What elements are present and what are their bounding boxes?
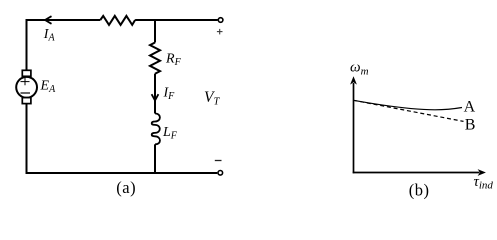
wire left rail bottom — [26, 104, 28, 174]
wire field branch top — [154, 19, 156, 43]
svg-text:B: B — [465, 116, 476, 133]
resistor RA (armature, unlabeled) — [100, 16, 135, 25]
label minus polarity — [215, 160, 222, 162]
terminal bottom (open circle) — [218, 171, 223, 176]
graph y-axis — [353, 83, 355, 173]
arrow IA head — [45, 16, 52, 24]
svg-text:A: A — [464, 99, 476, 116]
wire top left segment — [27, 19, 101, 21]
svg-text:(b): (b) — [409, 180, 430, 199]
wire top right segment — [135, 19, 218, 21]
wire bottom — [26, 172, 218, 174]
resistor RF — [150, 43, 160, 74]
arrow IF head — [152, 94, 159, 100]
wire field branch bottom — [154, 144, 156, 174]
svg-text:(a): (a) — [116, 178, 136, 197]
wire field branch middle with IF arrow — [154, 74, 156, 114]
graph y-axis arrowhead — [350, 76, 357, 84]
motor minus mark — [21, 92, 31, 94]
inductor LF — [152, 113, 160, 144]
curve A solid — [354, 100, 463, 110]
graph x-axis — [353, 172, 480, 174]
terminal top (open circle) — [218, 18, 223, 23]
motor EA circle — [16, 77, 37, 98]
motor plus mark — [21, 78, 30, 85]
motor EA brush top — [22, 70, 31, 76]
graph x-axis arrowhead — [478, 169, 486, 176]
label plus polarity — [217, 29, 223, 35]
curve B dashed — [354, 100, 464, 121]
wire left rail top — [26, 19, 28, 71]
motor EA brush bottom — [22, 98, 31, 104]
